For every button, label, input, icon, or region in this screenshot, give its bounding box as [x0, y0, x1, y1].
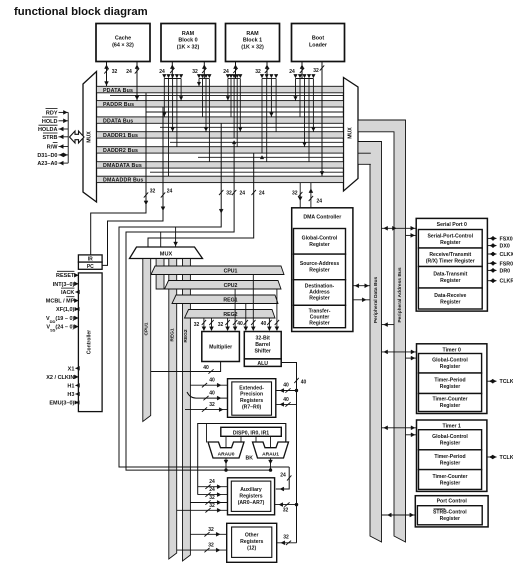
svg-text:DMAADDR Bus: DMAADDR Bus — [103, 178, 144, 184]
svg-text:EMU(3–0): EMU(3–0) — [49, 401, 74, 407]
svg-text:32: 32 — [255, 69, 261, 75]
wire ARAU junction to aux spine (24) — [276, 467, 289, 489]
register STRB-Control Register — [417, 506, 482, 525]
svg-text:32: 32 — [313, 68, 319, 74]
block Multiplier — [202, 332, 240, 362]
svg-text:Timer 1: Timer 1 — [443, 423, 461, 429]
wire Cache port B to PADDR bus (24) — [136, 62, 138, 101]
svg-text:DISP0, IR0, IR1: DISP0, IR0, IR1 — [233, 430, 269, 436]
svg-text:(R7–R0): (R7–R0) — [242, 404, 262, 410]
wire DADDR1 to CPU MUX and ARAU loop (24) — [126, 143, 272, 470]
wire REG2 to Auxiliary (32) — [190, 502, 227, 504]
wire REG1 to Other Registers (32) — [177, 549, 227, 551]
svg-text:STRB-Control: STRB-Control — [433, 510, 467, 516]
svg-text:40: 40 — [283, 397, 289, 403]
wire DMA to Peripheral Data Bus (bidirectional) — [353, 285, 370, 287]
bus PDATA Bus — [97, 86, 344, 93]
wire inter-bus segment 3 — [160, 126, 344, 128]
svg-text:DMA Controller: DMA Controller — [303, 215, 341, 221]
svg-text:X1: X1 — [68, 366, 75, 372]
block Serial Port 0 — [416, 218, 487, 311]
svg-text:HOLD: HOLD — [42, 119, 58, 125]
block DMA Controller — [292, 208, 353, 332]
svg-text:24: 24 — [159, 69, 165, 75]
wire ALU output to register file spine — [281, 363, 296, 543]
svg-text:32: 32 — [226, 191, 232, 197]
svg-text:CLKR0: CLKR0 — [500, 279, 513, 285]
register Timer 1 Global-Control Register — [419, 430, 482, 450]
svg-text:RESET: RESET — [56, 273, 75, 279]
block Cache (64 x 32) — [96, 24, 150, 62]
vertical bus feeding CPU2 — [156, 259, 164, 290]
ARAU1 unit — [253, 442, 289, 458]
svg-text:24: 24 — [126, 69, 132, 75]
wire loop to ARAU0 left input — [206, 424, 208, 443]
register Timer 1 Timer-Period Register — [419, 450, 482, 470]
svg-text:24: 24 — [223, 69, 229, 75]
arrows CPU/REG buses to Barrel Shifter (40,40) — [245, 304, 247, 331]
register DMA Source-Address Register — [294, 254, 346, 280]
horizontal bus CPU1 — [151, 266, 284, 275]
svg-text:24: 24 — [167, 189, 173, 195]
register DMA Transfer-Counter Register — [294, 305, 346, 327]
svg-text:R/W: R/W — [47, 145, 59, 151]
wire Peripheral Address Bus to Timer 1 lower — [406, 434, 417, 436]
svg-text:ALU: ALU — [257, 361, 268, 367]
overbar IACK — [61, 287, 74, 289]
wire left signal collector — [67, 112, 69, 163]
wire Peripheral Address Bus to Serial Port 0 lower — [406, 234, 417, 236]
wire DMA to Peripheral Data Bus (transfer) — [353, 299, 370, 301]
wire PADDR to controller (24) — [102, 107, 163, 265]
svg-text:Timer-Period: Timer-Period — [434, 378, 465, 384]
svg-text:24: 24 — [317, 199, 323, 205]
block Timer 1 — [417, 420, 487, 491]
svg-text:DMADATA Bus: DMADATA Bus — [103, 163, 142, 169]
wire Peripheral buses to Serial Port 0 upper — [382, 227, 417, 229]
svg-text:Timer 0: Timer 0 — [443, 347, 461, 353]
svg-text:PADDR Bus: PADDR Bus — [103, 102, 134, 108]
svg-text:Port Control: Port Control — [437, 499, 468, 505]
svg-text:32: 32 — [192, 69, 198, 75]
block DISP0, IR0, IR1 — [221, 427, 281, 436]
svg-text:24: 24 — [209, 487, 215, 493]
svg-text:Global-Control: Global-Control — [432, 434, 468, 440]
bus DADDR1 Bus — [97, 132, 344, 138]
signal TCLK1 — [487, 456, 497, 458]
svg-text:ARAU0: ARAU0 — [218, 451, 235, 457]
signal TCLK0 — [487, 380, 497, 382]
svg-text:DADDR2 Bus: DADDR2 Bus — [103, 148, 138, 154]
wire ARAU0 output — [225, 458, 227, 470]
wire DISP0 to ARAU1 horn — [255, 436, 257, 442]
svg-text:Boot: Boot — [312, 36, 324, 42]
signal FSX0 — [487, 237, 496, 239]
signal CLKX0 — [487, 253, 496, 255]
svg-text:Serial-Port-Control: Serial-Port-Control — [428, 233, 474, 239]
svg-text:32: 32 — [112, 69, 118, 75]
svg-text:24: 24 — [280, 473, 286, 479]
bidirectional bus arrow into left MUX — [70, 131, 85, 143]
svg-text:MUX: MUX — [160, 251, 173, 257]
svg-text:Other: Other — [245, 533, 259, 539]
vertical bus REG2 — [183, 259, 191, 562]
vertical bus REG1 — [169, 259, 177, 560]
wire DISP0 to ARAU0 notch — [225, 436, 227, 447]
svg-text:IACK: IACK — [61, 290, 74, 296]
wire PDATA to IR (32) — [91, 93, 146, 255]
svg-text:Register: Register — [309, 296, 329, 302]
wire DMA input from DMAADDR (32) — [299, 183, 301, 208]
svg-text:HOLDA: HOLDA — [38, 127, 58, 133]
svg-text:MUX: MUX — [87, 131, 93, 143]
svg-text:Data-Receive: Data-Receive — [434, 293, 466, 299]
wire REG bus to Ext-Precision (40) — [187, 392, 228, 398]
wire REG2 to Other Registers (32) — [190, 533, 226, 535]
svg-text:40: 40 — [237, 321, 243, 327]
svg-text:Source-Address: Source-Address — [300, 261, 340, 267]
svg-text:ARAU1: ARAU1 — [262, 451, 279, 457]
svg-text:XF(1,0): XF(1,0) — [56, 307, 75, 313]
svg-text:FSR0: FSR0 — [500, 261, 513, 267]
svg-text:Global-Control: Global-Control — [432, 358, 468, 364]
wire inter-bus segment 2 — [146, 111, 344, 113]
svg-text:40: 40 — [261, 321, 267, 327]
wire inter-bus segment 1 — [110, 94, 344, 96]
svg-text:32: 32 — [209, 503, 215, 509]
svg-text:32-Bit: 32-Bit — [255, 336, 270, 342]
svg-text:Shifter: Shifter — [254, 349, 270, 355]
bus DMADATA Bus — [97, 162, 344, 168]
svg-text:(R/X) Timer Register: (R/X) Timer Register — [426, 258, 475, 264]
block Extended-Precision Registers (R7-R0) — [228, 379, 276, 418]
wire DISP0 to ARAU1 notch — [270, 436, 272, 447]
svg-text:Timer-Counter: Timer-Counter — [433, 397, 468, 403]
wire Boot Loader port B to DMAADDR bus (32) — [321, 62, 323, 177]
svg-text:Block 1: Block 1 — [243, 38, 262, 44]
svg-text:STRB: STRB — [43, 135, 58, 141]
wire DADDR2 to CPU MUX (24) — [148, 153, 254, 247]
block RAM Block 1 (1K x 32) — [226, 24, 280, 62]
wires RAM Block 1 port B fan (32) — [266, 62, 268, 79]
svg-text:Precision: Precision — [240, 392, 263, 398]
svg-text:40: 40 — [209, 391, 215, 397]
svg-text:(AR0–AR7): (AR0–AR7) — [238, 500, 265, 506]
bus stub from right MUX into Peripheral Data Bus — [358, 153, 371, 164]
bus DMAADDR Bus — [97, 176, 344, 182]
block 32-Bit Barrel Shifter — [244, 332, 281, 359]
wire REG1 to Ext-Precision (32) — [185, 409, 228, 411]
svg-text:32: 32 — [208, 527, 214, 533]
wires RAM Block 0 port A fan (24) — [171, 62, 173, 79]
wire Multiplier output to CPU1 bus (40) — [151, 362, 221, 372]
signal FSR0 — [487, 262, 496, 264]
svg-text:Multiplier: Multiplier — [209, 345, 232, 351]
wire branch into CPU MUX 2 — [160, 232, 162, 247]
wire inter-bus segment 5 — [198, 156, 344, 158]
right bus MUX — [344, 78, 359, 192]
svg-text:DX0: DX0 — [500, 244, 510, 250]
horizontal bus REG2 — [185, 310, 276, 319]
horizontal bus CPU2 — [165, 281, 282, 290]
svg-text:REG2: REG2 — [183, 329, 189, 343]
svg-text:Register: Register — [440, 278, 460, 284]
svg-text:functional block diagram: functional block diagram — [14, 6, 148, 18]
vertical bus CPU1 — [143, 259, 151, 422]
svg-text:Extended-: Extended- — [239, 386, 264, 392]
wire ARAU feed loop — [198, 424, 286, 495]
svg-text:40: 40 — [203, 365, 209, 371]
svg-text:Barrel: Barrel — [255, 342, 271, 348]
wires RAM Block 0 port B fan (32) — [203, 62, 205, 79]
block Auxiliary Registers (AR0-AR7) — [228, 478, 275, 515]
svg-text:Timer-Counter: Timer-Counter — [433, 474, 468, 480]
svg-text:Register: Register — [309, 242, 329, 248]
svg-text:(64 × 32): (64 × 32) — [112, 43, 134, 49]
svg-text:Auxiliary: Auxiliary — [240, 487, 262, 493]
signal CLKR0 — [487, 280, 496, 282]
wire DMA input from DMAADDR (24) — [310, 183, 312, 208]
wire inter-bus segment 6 — [150, 171, 344, 173]
svg-text:Global-Control: Global-Control — [302, 236, 338, 242]
svg-text:MCBL / MP: MCBL / MP — [46, 299, 75, 305]
overbar RESET — [57, 270, 74, 272]
svg-text:Register: Register — [440, 384, 460, 390]
svg-text:32: 32 — [283, 508, 289, 514]
svg-text:Register: Register — [440, 516, 460, 522]
svg-text:(1K × 32): (1K × 32) — [177, 45, 200, 51]
svg-text:PC: PC — [87, 264, 94, 270]
wire Peripheral buses to Timer 0 upper — [382, 351, 417, 353]
svg-text:Peripheral Address Bus: Peripheral Address Bus — [397, 267, 403, 323]
wire branch into CPU MUX 1 — [175, 227, 177, 247]
svg-text:Serial Port 0: Serial Port 0 — [437, 222, 467, 228]
wire spine to Ext-Precision lower (40) — [276, 403, 297, 405]
wire spine to Ext-Precision (40) — [276, 390, 297, 392]
svg-text:40: 40 — [209, 378, 215, 384]
svg-text:Register: Register — [440, 480, 460, 486]
svg-text:Registers: Registers — [240, 398, 263, 404]
svg-text:INT(3–0): INT(3–0) — [53, 282, 75, 288]
block Controller — [78, 273, 102, 412]
register IR — [78, 255, 102, 262]
block ALU — [244, 359, 281, 367]
wire loop to ARAU1 left input — [285, 424, 287, 443]
register Data-Receive Register — [418, 288, 482, 309]
svg-text:Registers: Registers — [239, 493, 262, 499]
svg-text:Loader: Loader — [309, 43, 328, 49]
block Boot Loader — [292, 24, 345, 62]
svg-text:24: 24 — [240, 191, 246, 197]
svg-text:Cache: Cache — [115, 36, 131, 42]
svg-text:H1: H1 — [67, 383, 74, 389]
wire Peripheral buses to Timer 1 upper — [382, 427, 417, 429]
svg-text:32: 32 — [218, 322, 224, 328]
svg-text:A23–A0: A23–A0 — [37, 161, 57, 167]
svg-text:TCLK0: TCLK0 — [500, 379, 513, 385]
wires Boot Loader port A fan (24) — [301, 62, 303, 79]
horizontal bus REG1 — [172, 295, 278, 304]
register PC — [78, 262, 102, 269]
svg-text:BK: BK — [246, 456, 254, 462]
svg-text:24: 24 — [289, 69, 295, 75]
left bus MUX — [83, 72, 97, 203]
svg-text:H3: H3 — [67, 392, 74, 398]
block Other Registers (12) — [227, 523, 277, 562]
ARAU0 unit — [208, 442, 244, 458]
svg-text:24: 24 — [259, 191, 265, 197]
wire REG2 to Ext-Precision (40) — [190, 384, 227, 386]
svg-text:32: 32 — [208, 543, 214, 549]
svg-text:FSX0: FSX0 — [500, 236, 513, 242]
svg-text:Timer-Period: Timer-Period — [434, 454, 465, 460]
block Timer 0 — [417, 344, 487, 414]
CPU section MUX — [130, 247, 203, 259]
svg-text:32: 32 — [209, 495, 215, 501]
wire loop to Auxiliary (24) — [198, 486, 228, 488]
svg-text:RAM: RAM — [182, 31, 195, 37]
wire REG1 to Auxiliary (32) — [177, 509, 228, 511]
svg-text:Register: Register — [440, 299, 460, 305]
svg-text:Register: Register — [440, 403, 460, 409]
wire DDATA to CPU MUX and ARAU loop (32) — [119, 123, 289, 467]
wire spine to Other Registers right (32) — [277, 542, 297, 544]
svg-text:RAM: RAM — [246, 31, 259, 37]
overbar MP on MCBL/MP — [66, 296, 74, 298]
svg-text:Register: Register — [440, 364, 460, 370]
wire ARAU1 output — [270, 458, 272, 470]
register Timer 1 Timer-Counter Register — [419, 470, 482, 490]
wire spine to Auxiliary right (32) — [275, 504, 297, 506]
wire loop to Auxiliary second (24) — [198, 494, 228, 496]
register DMA Global-Control Register — [294, 229, 346, 255]
svg-text:Block 0: Block 0 — [178, 38, 197, 44]
svg-text:32: 32 — [150, 189, 156, 195]
block RAM Block 0 (1K x 32) — [161, 24, 216, 62]
svg-text:(1K × 32): (1K × 32) — [241, 45, 264, 51]
wires RAM Block 1 port A fan (24) — [235, 62, 237, 79]
block Port Control — [415, 496, 488, 527]
bus Peripheral Address Bus (wraps from right MUX) — [358, 120, 406, 542]
svg-text:X2 / CLKIN: X2 / CLKIN — [46, 375, 74, 381]
svg-text:RDY: RDY — [46, 110, 58, 116]
register DMA Destination-Address Register — [294, 280, 346, 306]
svg-text:DR0: DR0 — [500, 268, 511, 274]
wire Cache port A to PDATA bus (32) — [106, 62, 108, 87]
wire DISP0 to ARAU0 horn — [240, 436, 242, 442]
svg-text:CPU1: CPU1 — [144, 322, 150, 335]
svg-text:Register: Register — [440, 240, 460, 246]
svg-text:TCLK1: TCLK1 — [500, 455, 513, 461]
arrows CPU/REG buses to Multiplier (32,32) — [203, 318, 205, 331]
svg-text:32: 32 — [209, 402, 215, 408]
svg-text:Register: Register — [440, 461, 460, 467]
bus DDATA Bus — [97, 117, 344, 123]
svg-text:PDATA Bus: PDATA Bus — [103, 88, 133, 94]
svg-text:Registers: Registers — [240, 539, 263, 545]
bus Peripheral Data Bus (wraps from right MUX) — [358, 142, 382, 543]
wire Peripheral buses to Port Control — [382, 514, 416, 516]
svg-text:40: 40 — [301, 380, 307, 386]
svg-text:CPU2: CPU2 — [224, 283, 238, 289]
svg-text:D31–D0: D31–D0 — [37, 153, 57, 159]
svg-text:Data-Transmit: Data-Transmit — [433, 272, 467, 278]
svg-text:32: 32 — [292, 191, 298, 197]
svg-text:24: 24 — [209, 479, 215, 485]
svg-text:Register: Register — [309, 268, 329, 274]
register Serial-Port-Control Register — [418, 230, 482, 249]
register Data-Transmit Register — [418, 267, 482, 289]
signal DX0 — [487, 245, 496, 247]
svg-text:32: 32 — [283, 534, 289, 540]
svg-text:Controller: Controller — [86, 330, 92, 354]
bus DADDR2 Bus — [97, 147, 344, 153]
register Receive/Transmit (R/X) Timer Register — [418, 248, 482, 267]
wire Peripheral Address Bus to Timer 0 lower — [406, 357, 417, 359]
svg-text:DDATA Bus: DDATA Bus — [103, 118, 133, 124]
wire inter-bus segment 4 — [170, 141, 344, 143]
register Timer 0 Timer-Period Register — [419, 373, 482, 394]
wire Peripheral buses cross link at DMA — [382, 324, 395, 326]
signal DR0 — [487, 269, 496, 271]
svg-text:CPU1: CPU1 — [224, 268, 238, 274]
svg-text:DADDR1 Bus: DADDR1 Bus — [103, 133, 138, 139]
svg-text:Receive/Transmit: Receive/Transmit — [429, 252, 471, 258]
svg-text:Register: Register — [440, 441, 460, 447]
svg-text:Register: Register — [309, 321, 329, 327]
register Timer 0 Timer-Counter Register — [419, 394, 482, 412]
svg-text:32: 32 — [194, 322, 200, 328]
svg-text:Peripheral Data Bus: Peripheral Data Bus — [373, 276, 379, 323]
svg-text:MUX: MUX — [348, 127, 354, 139]
register Timer 0 Global-Control Register — [419, 354, 482, 374]
svg-text:REG1: REG1 — [170, 328, 176, 342]
svg-text:CLKX0: CLKX0 — [500, 252, 513, 258]
bus PADDR Bus — [97, 101, 344, 107]
svg-text:40: 40 — [283, 383, 289, 389]
svg-text:(12): (12) — [247, 545, 256, 551]
